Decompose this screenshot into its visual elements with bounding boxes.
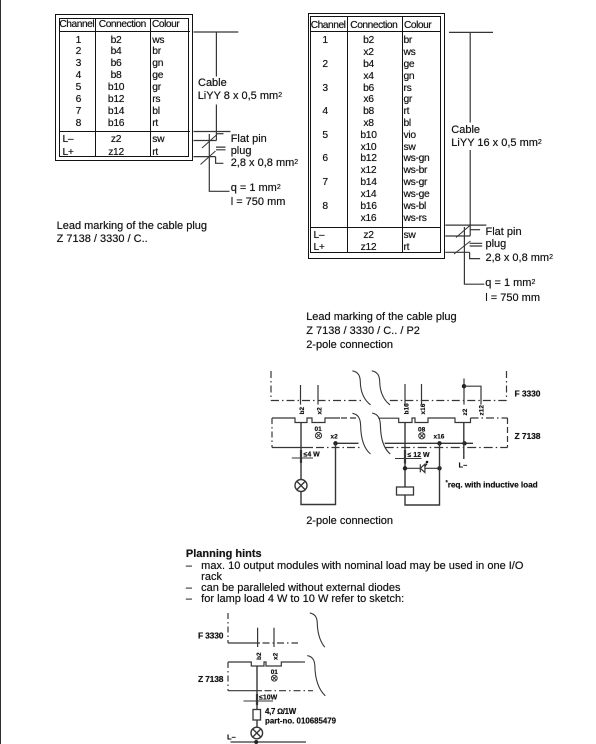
table T2 header underline: [310, 31, 442, 32]
label Z7138 sketch: [198, 674, 224, 684]
wire x16 drop: [439, 443, 441, 468]
wire L- supply drop: [463, 379, 465, 405]
pin stub x16 F3330: [421, 384, 423, 405]
label req inductive load: [446, 479, 538, 489]
plug elbow T2: [470, 252, 481, 258]
break mark sketch top: [310, 613, 325, 647]
table T1 connection column: [95, 35, 138, 130]
flat pin tick T2: [470, 229, 480, 231]
caption under main circuit: [306, 515, 393, 527]
plug elbow T1: [216, 157, 224, 164]
table T1 header underline: [59, 31, 190, 32]
pin stub x2 sketch: [273, 628, 275, 647]
svg-text:x2: x2: [273, 652, 280, 660]
svg-text:≤4 W: ≤4 W: [304, 452, 321, 459]
lamp L1: [295, 480, 307, 492]
wire relay return loop: [405, 468, 440, 505]
node x2 junction: [333, 441, 337, 445]
wire internal bus y443: [336, 442, 474, 444]
table T1 channel column: [59, 35, 98, 130]
label resistor value: [265, 707, 297, 716]
load rating tick 4W: [292, 457, 313, 459]
svg-text:part-no. 010685479: part-no. 010685479: [265, 717, 337, 726]
pin stub b2 F3330: [300, 385, 302, 405]
svg-text:Z 7138: Z 7138: [198, 674, 224, 684]
module Z7138 bottom edge: [272, 447, 313, 449]
svg-text:4,7 Ω/1W: 4,7 Ω/1W: [265, 707, 297, 716]
svg-text:*req. with inductive load: *req. with inductive load: [446, 479, 538, 489]
table T1 colour column: [152, 35, 164, 130]
table T1 headers: [59, 19, 94, 30]
flat pin tick T1: [216, 133, 223, 135]
table T1 L rows: [63, 134, 74, 159]
pin label z12: [479, 405, 486, 416]
table T1 column divider 1: [95, 18, 96, 157]
table T2 column divider 1: [347, 16, 348, 253]
label resistor part number: [265, 717, 337, 726]
pin stub b16 F3330: [404, 384, 406, 405]
load rating tick 10W sketch: [244, 700, 274, 702]
pin label x2: [317, 407, 324, 415]
resistor R 4,7 ohm: [253, 710, 261, 721]
table T2 outer border: [308, 13, 445, 258]
break mark sketch bottom: [307, 656, 325, 696]
wire lamp branch down: [300, 423, 302, 480]
load rating tick 12W: [395, 458, 422, 460]
pin label b2: [299, 407, 306, 415]
plug double line T2: [470, 243, 483, 246]
svg-text:L–: L–: [459, 461, 468, 470]
wire L- pin drop: [463, 423, 465, 460]
pin stub b2 sketch: [257, 628, 259, 647]
svg-text:F 3330: F 3330: [198, 631, 224, 641]
module F3330 right edge: [506, 371, 508, 401]
LED indicator 01 sketch: [271, 669, 279, 676]
label 12W: [408, 452, 431, 459]
table T1 outer border: [55, 14, 193, 160]
svg-text:L–: L–: [227, 732, 236, 741]
module Z7138 sketch bottom edge: [228, 690, 262, 692]
wire q-callout T2: [464, 227, 484, 284]
node lamp to rail junction: [254, 740, 258, 744]
label 10W sketch: [259, 695, 278, 702]
pin label b16: [404, 403, 411, 415]
node L- junction: [462, 441, 466, 445]
table T2 column divider 2: [402, 16, 403, 253]
wire lamp branch sketch: [256, 666, 258, 710]
pin label b2 sketch: [256, 652, 263, 660]
module Z7138 top edge with pin notches: [272, 418, 340, 423]
wire cable vertical T1: [215, 32, 217, 141]
pin stub x2 F3330: [317, 385, 319, 405]
LED indicator 01: [315, 426, 323, 433]
lamp L2 sketch: [251, 727, 263, 739]
module F3330 bus rail: [271, 400, 362, 402]
svg-text:z2: z2: [462, 408, 469, 415]
module F3330 sketch left edge: [227, 613, 229, 643]
svg-text:≤ 12 W: ≤ 12 W: [408, 452, 431, 459]
wire q-callout T1: [209, 134, 229, 191]
node junction L- jumper: [462, 384, 466, 388]
svg-text:x16: x16: [420, 403, 427, 414]
diode D1: [420, 464, 425, 472]
module Z7138 sketch top edge with notches: [228, 662, 300, 666]
wire lamp return loop: [301, 443, 336, 504]
wire L- jumper: [464, 386, 481, 404]
wire relay branch down: [404, 423, 406, 488]
svg-text:x2: x2: [317, 407, 324, 415]
pin label z2: [462, 408, 469, 415]
node x16 junction: [437, 441, 441, 445]
wire cable vertical T2: [469, 32, 471, 236]
table T2 L rows: [314, 230, 325, 254]
label F3330: [515, 388, 541, 398]
table T2 headers: [311, 20, 346, 31]
module F3330 left edge: [270, 371, 272, 401]
relay coil K1: [397, 487, 414, 495]
wire L+ exit line T1: [194, 140, 217, 142]
wire diode link: [405, 467, 440, 469]
break mark top pair: [352, 371, 390, 405]
wire L+ exit line T2: [445, 235, 470, 237]
module Z7138 left edge: [271, 418, 273, 448]
svg-text:01: 01: [315, 426, 323, 433]
pin label x2 sketch: [273, 652, 280, 660]
table T1 column divider 2: [150, 18, 151, 157]
module F3330 sketch rail: [228, 642, 260, 644]
table T1 L-section divider: [59, 131, 190, 132]
label F3330 sketch: [198, 631, 224, 641]
wire bottom exit line T2: [445, 251, 469, 253]
svg-text:x16: x16: [434, 434, 445, 441]
table T1 inner border: [59, 18, 190, 157]
table T2 channel column: [310, 35, 341, 224]
svg-text:x2: x2: [331, 434, 339, 441]
table T2 connection column: [347, 35, 391, 224]
svg-text:b16: b16: [404, 403, 411, 415]
wire L- exit line T1: [194, 131, 231, 133]
node diode left junction: [403, 466, 407, 470]
svg-text:z12: z12: [479, 405, 486, 416]
svg-text:b2: b2: [256, 652, 263, 660]
node label x2: [331, 434, 339, 441]
wire cable top horizontal T1: [194, 31, 239, 33]
plug double line T1: [216, 147, 226, 150]
node diode right junction: [437, 466, 441, 470]
wire bottom exit line T1: [194, 156, 216, 158]
wire L- exit line T2: [445, 224, 486, 226]
page left edge line: [0, 0, 1, 744]
LED indicator 08: [418, 427, 426, 434]
module Z7138 sketch left edge: [227, 662, 229, 691]
slash marks T2: [454, 225, 471, 255]
svg-text:F 3330: F 3330: [515, 388, 541, 398]
label diode asterisk: [425, 461, 429, 467]
label 4W: [304, 452, 321, 459]
node label x16: [434, 434, 445, 441]
label Z7138: [515, 431, 541, 441]
wire cable top horizontal T2: [449, 31, 493, 33]
svg-text:Z 7138: Z 7138: [515, 431, 541, 441]
titles under tables: [57, 220, 207, 247]
break mark middle pair: [352, 413, 390, 454]
label L- main: [459, 461, 468, 470]
label L- sketch: [227, 732, 236, 741]
slash marks T1: [201, 135, 218, 165]
wire L- rail sketch: [231, 741, 307, 743]
svg-text:≤10W: ≤10W: [259, 695, 278, 702]
table T2 colour column: [404, 35, 430, 224]
pin label x16: [420, 403, 427, 414]
table T2 L-section divider: [310, 227, 442, 228]
svg-text:b2: b2: [299, 407, 306, 415]
table T2 inner border: [310, 16, 441, 253]
wire resistor to lamp: [256, 720, 258, 727]
module Z7138 right edge: [507, 418, 509, 448]
